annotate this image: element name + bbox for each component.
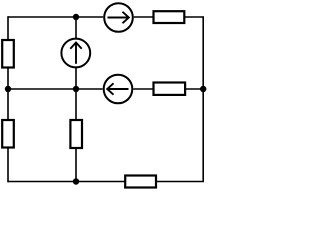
wire left top segment [7,16,9,39]
wire top-left horizontal [8,16,103,18]
junction node bottom-middle [73,178,79,184]
junction node right-middle [200,86,206,92]
resistor R3 mid-column vertical [70,120,82,148]
current source I2 (arrow right) top [104,3,133,32]
current source I3 (arrow left) middle [104,75,133,104]
resistor R6 bottom horizontal [125,176,156,188]
wire mid column bottom [75,149,77,182]
junction node left-middle [5,86,11,92]
junction node center [73,86,79,92]
junction node top-middle [73,14,79,20]
wire middle row right [186,88,204,90]
wire right vertical [202,16,204,181]
resistor R4 top-right horizontal [154,11,185,23]
wire bottom left segment [8,181,125,183]
wire top between I2 and R4 [134,16,153,18]
wire mid column top [75,17,77,38]
resistor R2 bottom-left vertical [2,120,14,148]
wire middle row left [8,88,103,90]
wire left bottom segment [7,149,9,183]
resistor R1 top-left vertical [2,40,14,68]
wire left middle segment [7,69,9,120]
wire top-right to corner [185,16,203,18]
resistor R5 mid-right horizontal [154,83,186,95]
wire bottom right segment [157,181,205,183]
current source I1 (arrow up) left-middle [61,39,90,68]
wire mid column middle [75,68,77,120]
wire middle row between I3 and R5 [133,88,153,90]
